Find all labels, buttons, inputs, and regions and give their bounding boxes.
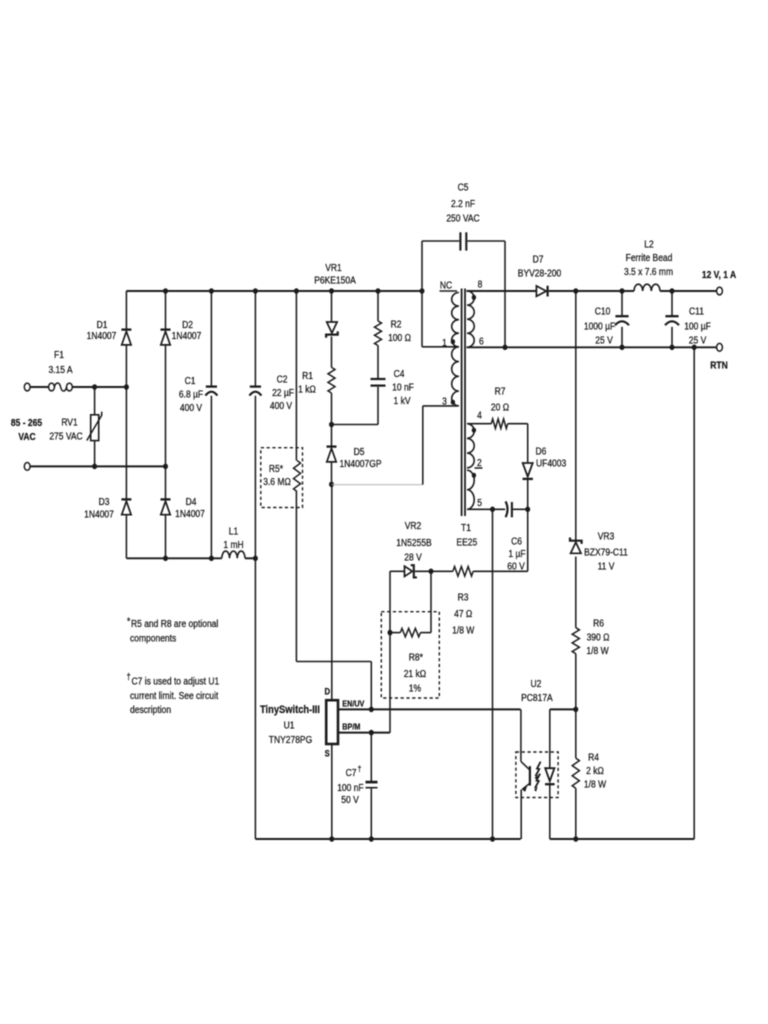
svg-text:100 Ω: 100 Ω [388, 332, 411, 343]
diode D5 [327, 445, 337, 447]
svg-text:D4: D4 [186, 496, 197, 507]
wire [504, 241, 506, 347]
junction [490, 507, 495, 513]
svg-text:1000 µF: 1000 µF [584, 321, 616, 332]
svg-text:R5*: R5* [269, 463, 284, 474]
junction [163, 556, 168, 562]
junction [420, 288, 425, 294]
optocoupler U2 LED [545, 768, 554, 781]
wire [165, 291, 167, 329]
wire [377, 387, 379, 425]
wire [94, 387, 96, 415]
junction [369, 707, 374, 713]
junction [163, 288, 168, 294]
svg-text:D: D [324, 686, 330, 697]
svg-text:2 kΩ: 2 kΩ [586, 765, 604, 776]
capacitor C6 [506, 501, 508, 517]
wire EN/UV [338, 708, 520, 710]
wire [390, 570, 404, 572]
svg-text:3.5 x 7.6 mm: 3.5 x 7.6 mm [624, 266, 673, 277]
wire [331, 337, 333, 368]
svg-text:1 kV: 1 kV [394, 395, 412, 406]
svg-text:1 mH: 1 mH [223, 539, 243, 550]
svg-text:3.6 MΩ: 3.6 MΩ [263, 476, 291, 487]
optocoupler U2 box [516, 752, 558, 798]
svg-text:U2: U2 [530, 678, 541, 689]
junction [490, 836, 495, 842]
svg-text:BP/M: BP/M [342, 722, 360, 732]
svg-text:D3: D3 [99, 496, 110, 507]
junction [253, 556, 258, 562]
svg-text:RTN: RTN [710, 360, 728, 371]
wire primary ground rail [255, 838, 520, 840]
svg-text:VR2: VR2 [405, 520, 422, 531]
wire [549, 784, 551, 839]
inductor L1 [222, 551, 245, 558]
wire [377, 291, 379, 321]
svg-text:400 V: 400 V [180, 402, 203, 413]
wire [671, 327, 673, 348]
wire [94, 441, 96, 467]
wire [422, 406, 424, 485]
junction [369, 836, 374, 842]
svg-text:28 V: 28 V [404, 552, 422, 563]
wire [331, 291, 333, 322]
wire NC stub [440, 290, 458, 292]
svg-text:50 V: 50 V [341, 794, 359, 805]
junction [620, 288, 625, 294]
svg-text:RV1: RV1 [61, 417, 77, 428]
svg-text:TNY278PG: TNY278PG [269, 734, 312, 745]
diode D6 [523, 463, 533, 477]
junction [376, 288, 381, 294]
svg-text:8: 8 [478, 279, 483, 290]
wire [621, 327, 623, 348]
wire [126, 290, 422, 292]
svg-text:L1: L1 [229, 526, 238, 537]
wire [422, 346, 458, 348]
junction [369, 730, 374, 736]
winding polarity dot pin1 [451, 339, 455, 344]
wire [575, 654, 577, 710]
capacitor C11 [665, 315, 678, 317]
wire [527, 479, 529, 509]
wire BP/M [338, 732, 390, 734]
wire [621, 291, 623, 316]
svg-text:275 VAC: 275 VAC [49, 431, 83, 442]
svg-text:47 Ω: 47 Ω [454, 608, 472, 619]
svg-text:6.8 µF: 6.8 µF [179, 389, 204, 400]
optocoupler U2 phototransistor [520, 709, 522, 761]
svg-text:P6KE150A: P6KE150A [314, 275, 356, 286]
svg-text:3.15 A: 3.15 A [48, 364, 73, 375]
wire [370, 789, 372, 839]
junction [209, 556, 214, 562]
wire [30, 386, 48, 388]
svg-text:R6: R6 [593, 618, 604, 629]
wire [254, 396, 256, 839]
junction [525, 507, 530, 513]
wire [671, 291, 673, 316]
wire [549, 290, 634, 292]
svg-text:R1: R1 [302, 370, 313, 381]
varistor RV1 [91, 415, 99, 441]
svg-text:C4: C4 [394, 368, 405, 379]
svg-text:1N4007GP: 1N4007GP [339, 458, 381, 469]
svg-text:85 - 265: 85 - 265 [11, 417, 42, 428]
svg-text:100 µF: 100 µF [684, 321, 711, 332]
svg-text:1/8 W: 1/8 W [584, 779, 606, 790]
svg-text:C7 is used to adjust U1: C7 is used to adjust U1 [132, 676, 220, 687]
svg-text:D1: D1 [97, 319, 108, 330]
wire [415, 570, 453, 572]
wire [575, 291, 577, 540]
wire pin5 [467, 508, 505, 510]
svg-text:D5: D5 [354, 446, 365, 457]
svg-text:VAC: VAC [18, 431, 36, 442]
resistor R7 [491, 419, 507, 429]
junction [503, 345, 508, 351]
zener VR1 [327, 322, 337, 333]
svg-text:1/8 W: 1/8 W [586, 645, 608, 656]
transformer T1 bias winding upper [467, 424, 474, 468]
svg-text:3: 3 [442, 396, 447, 407]
wire source [331, 744, 333, 839]
svg-text:†: † [127, 671, 132, 682]
svg-text:R7: R7 [495, 386, 506, 397]
wire [389, 571, 391, 732]
wire [245, 557, 255, 559]
wire [575, 788, 577, 839]
diode D1 [121, 328, 131, 330]
svg-text:T1: T1 [461, 522, 471, 533]
svg-text:25 V: 25 V [689, 335, 707, 346]
svg-text:NC: NC [440, 280, 453, 291]
svg-text:C1: C1 [185, 375, 196, 386]
svg-text:R5 and R8 are optional: R5 and R8 are optional [131, 618, 218, 629]
transformer T1 core [461, 289, 463, 517]
transformer T1 primary winding lower [452, 347, 459, 406]
svg-text:C10: C10 [595, 306, 611, 317]
transformer T1 primary winding upper [452, 293, 459, 347]
diode D2 [161, 328, 171, 330]
wire [30, 465, 165, 467]
wire [377, 346, 379, 379]
svg-text:C7: C7 [346, 767, 357, 778]
svg-text:10 nF: 10 nF [392, 382, 414, 393]
wire [575, 709, 577, 758]
wire bias return [492, 509, 494, 839]
svg-text:BZX79-C11: BZX79-C11 [584, 547, 628, 558]
wire [370, 733, 372, 781]
junction [329, 422, 334, 428]
svg-text:L2: L2 [644, 239, 653, 250]
svg-text:1N5255B: 1N5255B [396, 537, 431, 548]
fuse F1 [49, 383, 55, 391]
transformer T1 secondary winding [467, 291, 474, 347]
svg-text:100 nF: 100 nF [337, 782, 364, 793]
svg-text:25 V: 25 V [595, 335, 613, 346]
wire [295, 492, 297, 662]
junction [209, 288, 214, 294]
svg-text:D2: D2 [182, 319, 193, 330]
svg-text:Ferrite Bead: Ferrite Bead [626, 252, 673, 263]
resistor R8 [400, 628, 420, 636]
capacitor C5 [459, 232, 461, 250]
inductor L2 [634, 284, 660, 291]
svg-text:VR1: VR1 [325, 262, 342, 273]
svg-text:1 µF: 1 µF [508, 548, 525, 559]
svg-text:1N4007: 1N4007 [84, 509, 114, 520]
svg-text:1: 1 [442, 337, 447, 348]
winding polarity dot pin3 [451, 400, 455, 405]
svg-text:4: 4 [477, 410, 482, 421]
svg-text:60 V: 60 V [507, 561, 525, 572]
resistor R5 [294, 461, 301, 492]
svg-text:1/8 W: 1/8 W [452, 625, 474, 636]
resistor R1 [328, 367, 335, 393]
wire [370, 662, 372, 710]
svg-text:11 V: 11 V [598, 561, 616, 572]
capacitor C10 [615, 315, 628, 317]
wire [513, 508, 528, 510]
svg-text:description: description [130, 704, 171, 715]
svg-text:C2: C2 [277, 374, 288, 385]
svg-text:390 Ω: 390 Ω [587, 632, 610, 643]
winding polarity dot pin4 [472, 428, 476, 433]
capacitor C1 [206, 385, 217, 387]
wire [332, 424, 379, 426]
wire [296, 661, 371, 663]
svg-text:6: 6 [479, 336, 484, 347]
wire [72, 386, 126, 388]
svg-text:2.2 nF: 2.2 nF [451, 198, 475, 209]
diode D7 [536, 286, 546, 296]
wire [527, 424, 529, 463]
wire [508, 423, 528, 425]
wire [165, 515, 167, 559]
svg-text:TinySwitch-III: TinySwitch-III [260, 704, 320, 716]
junction [620, 345, 625, 351]
svg-text:EN/UV: EN/UV [342, 699, 365, 709]
svg-text:R8*: R8* [409, 652, 424, 663]
junction [329, 836, 334, 842]
junction [92, 464, 97, 470]
junction [692, 345, 697, 351]
wire [467, 423, 491, 425]
wire drain [331, 484, 333, 700]
svg-text:S: S [325, 748, 330, 759]
junction [294, 288, 299, 294]
svg-text:1%: 1% [409, 683, 421, 694]
svg-text:1N4007: 1N4007 [175, 508, 205, 519]
wire [693, 347, 695, 839]
wire [527, 509, 529, 571]
svg-text:400 V: 400 V [270, 400, 293, 411]
svg-text:5: 5 [477, 497, 482, 508]
junction [253, 288, 258, 294]
svg-text:12 V, 1 A: 12 V, 1 A [702, 269, 737, 280]
wire [390, 632, 400, 634]
svg-text:current limit. See circuit: current limit. See circuit [130, 690, 219, 701]
wire [332, 484, 423, 486]
svg-text:250 VAC: 250 VAC [446, 213, 480, 224]
wire [660, 290, 717, 292]
wire [125, 515, 127, 559]
svg-text:VR3: VR3 [598, 531, 615, 542]
svg-text:21 kΩ: 21 kΩ [404, 668, 426, 679]
wire [125, 345, 127, 499]
wire [468, 240, 506, 242]
svg-text:22 µF: 22 µF [272, 387, 294, 398]
svg-text:EE25: EE25 [456, 537, 477, 548]
wire [210, 291, 212, 386]
capacitor C4 [371, 378, 386, 380]
wire [125, 291, 127, 329]
node AC input N terminal [24, 463, 30, 471]
node output terminal 12V [717, 287, 723, 295]
wire [331, 462, 333, 485]
resistor R6 [572, 628, 579, 654]
junction [670, 345, 675, 351]
wire [549, 709, 551, 768]
transformer T1 bias winding lower [467, 470, 474, 509]
svg-text:D7: D7 [533, 254, 544, 265]
wire [331, 425, 333, 447]
svg-text:components: components [130, 633, 177, 644]
resistor R3 [453, 567, 473, 577]
junction [670, 288, 675, 294]
svg-text:F1: F1 [54, 349, 64, 360]
winding polarity dot pin2 [472, 473, 476, 478]
wire opto LED feed [550, 708, 576, 710]
svg-text:C6: C6 [511, 536, 522, 547]
wire [473, 570, 528, 572]
wire pin2 stub [475, 467, 483, 469]
wire [467, 290, 537, 292]
capacitor C7 [366, 781, 378, 784]
diode D3 [121, 498, 131, 500]
svg-text:†: † [358, 764, 362, 774]
wire [422, 240, 459, 242]
svg-text:U1: U1 [284, 720, 295, 731]
svg-text:1 kΩ: 1 kΩ [298, 384, 316, 395]
wire [210, 396, 212, 559]
svg-text:C5: C5 [458, 182, 469, 193]
optocoupler U2 light arrows [535, 762, 540, 777]
winding polarity dot pin8 [472, 295, 476, 300]
junction [163, 464, 168, 470]
wire [165, 345, 167, 499]
svg-text:R4: R4 [588, 752, 599, 763]
optional box R8 [381, 612, 439, 698]
op-amp U1 TNY278PG body [326, 700, 338, 744]
svg-text:20 Ω: 20 Ω [491, 402, 509, 413]
svg-text:BYV28-200: BYV28-200 [518, 268, 561, 279]
wire [467, 346, 717, 348]
wire [420, 632, 431, 634]
svg-text:C11: C11 [689, 306, 704, 317]
zener VR3 [571, 542, 581, 553]
svg-text:R2: R2 [391, 319, 402, 330]
junction [92, 384, 97, 390]
junction [329, 482, 334, 488]
svg-text:PC817A: PC817A [521, 692, 553, 703]
svg-text:2: 2 [477, 457, 482, 468]
junction [329, 288, 334, 294]
capacitor C2 [250, 385, 261, 387]
wire [331, 393, 333, 425]
node AC input L terminal [24, 383, 30, 391]
resistor R4 [572, 758, 579, 788]
wire [295, 291, 297, 461]
wire [254, 291, 256, 386]
junction [124, 384, 129, 390]
junction [573, 288, 578, 294]
junction [429, 569, 434, 575]
wire [421, 241, 423, 347]
svg-text:R3: R3 [458, 592, 469, 603]
svg-text:D6: D6 [536, 446, 547, 457]
wire [126, 557, 221, 559]
wire secondary return rail [550, 838, 694, 840]
diode D4 [161, 498, 171, 500]
svg-text:*: * [127, 616, 131, 627]
svg-text:UF4003: UF4003 [536, 458, 566, 469]
zener VR2 [405, 566, 413, 576]
junction [388, 630, 393, 636]
junction [573, 836, 578, 842]
wire [575, 557, 577, 628]
wire [423, 405, 458, 407]
optional box R5 [261, 448, 303, 508]
node RTN terminal [717, 343, 723, 351]
svg-text:1N4007: 1N4007 [172, 330, 202, 341]
wire [430, 571, 432, 632]
resistor R2 [375, 321, 382, 346]
junction [573, 707, 578, 713]
svg-text:1N4007: 1N4007 [87, 330, 117, 341]
